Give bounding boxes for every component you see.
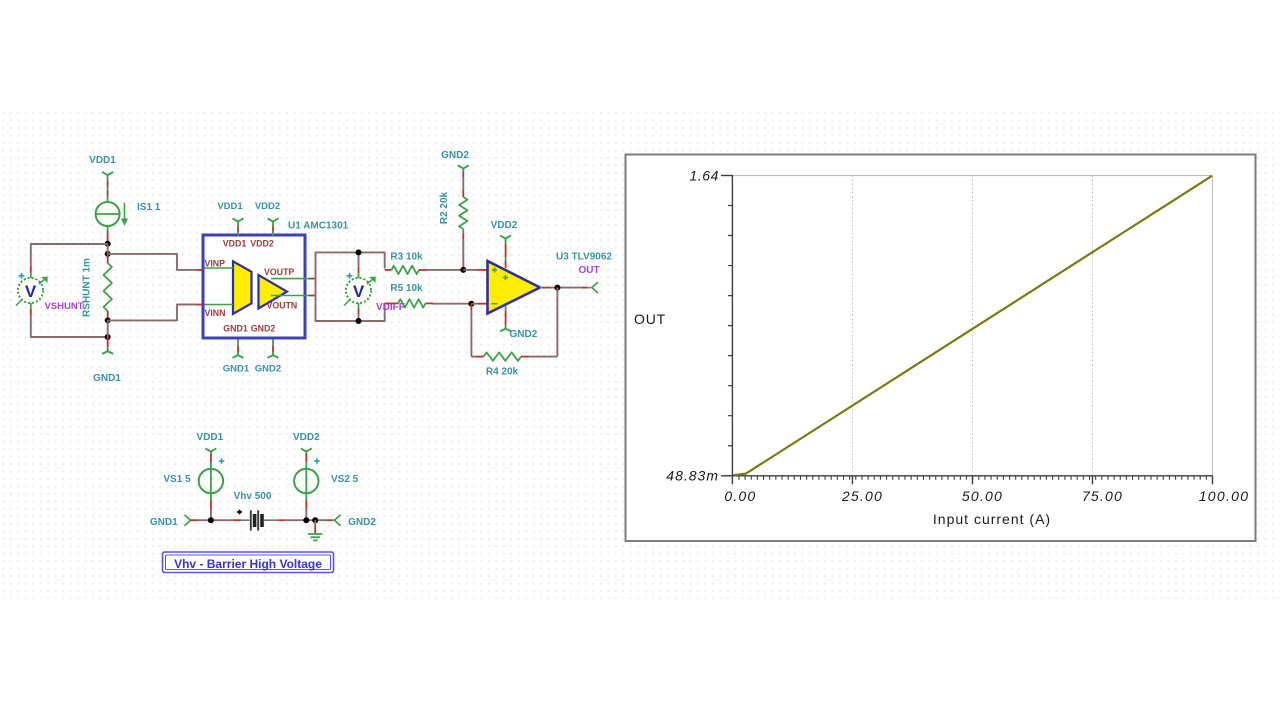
wire: op-amp output — [540, 287, 589, 289]
chart dotted gridline 75.00 — [1091, 176, 1093, 476]
svg-text:VDD2: VDD2 — [491, 220, 518, 231]
battery Vhv 500 — [234, 510, 284, 530]
svg-text:VDD2: VDD2 — [255, 201, 280, 212]
y axis — [731, 175, 733, 476]
U1 internal output lines — [271, 279, 305, 296]
power net VDD2 (U1 pin) — [255, 201, 280, 236]
wire: R4 to output — [521, 288, 557, 357]
terminal GND1 — [150, 515, 199, 528]
wire: shunt column between junctions — [107, 320, 109, 337]
svg-text:R3 10k: R3 10k — [390, 252, 423, 263]
svg-text:50.00: 50.00 — [962, 488, 1003, 504]
node: meter bottom junction — [356, 318, 362, 324]
power net VDD1 (U1 pin 1) — [217, 201, 243, 236]
wire: junction to op-amp - input — [471, 303, 477, 305]
node: VS1 bottom junction — [208, 517, 214, 523]
node: bottom loop junction — [105, 334, 111, 340]
svg-text:0.00: 0.00 — [724, 488, 756, 504]
svg-text:GND2: GND2 — [510, 329, 538, 340]
svg-text:Vhv - Barrier High Voltage: Vhv - Barrier High Voltage — [174, 557, 322, 571]
node: meter top junction — [356, 249, 362, 255]
svg-text:GND2: GND2 — [255, 364, 281, 375]
power net VDD2 (op-amp supply) — [491, 220, 518, 268]
y label dash 48.83m — [721, 475, 732, 477]
wire: left loop to VSHUNT meter — [31, 244, 108, 337]
svg-text:GND2: GND2 — [251, 323, 276, 333]
svg-text:VS2 5: VS2 5 — [331, 474, 359, 485]
battery + mark — [237, 511, 242, 513]
svg-text:VOUTP: VOUTP — [264, 267, 294, 277]
ground net GND2 (op-amp) — [500, 306, 538, 340]
node: earth junction — [312, 517, 318, 523]
resistor R5 10k — [385, 299, 433, 307]
svg-text:Vhv 500: Vhv 500 — [234, 491, 272, 502]
x axis — [732, 475, 1212, 477]
wire: junction to junction on shunt column — [107, 244, 109, 254]
y axis minor ticks — [728, 205, 732, 476]
node: output junction — [554, 285, 560, 291]
voltmeter VDIFF — [344, 267, 376, 315]
svg-text:R5 10k: R5 10k — [390, 283, 423, 294]
node: inverting input junction — [468, 301, 474, 307]
node: VINP branch junction — [105, 251, 111, 257]
resistor R2 20k — [459, 197, 467, 240]
wire: VOUTN pin stub — [305, 295, 316, 297]
op-amp U3 TLV9062 — [488, 261, 541, 314]
x axis minor ticks — [738, 476, 1212, 480]
resistor R4 20k — [484, 352, 522, 360]
chart dotted gridline 25.00 — [851, 176, 853, 476]
voltage source VS2 5 — [294, 458, 320, 493]
svg-text:VDD1: VDD1 — [196, 432, 223, 443]
svg-text:V: V — [353, 282, 365, 301]
svg-text:48.83m: 48.83m — [666, 468, 719, 484]
wire: R2 to summing node — [462, 240, 464, 270]
svg-text:GND1: GND1 — [93, 373, 121, 384]
svg-text:25.00: 25.00 — [841, 488, 883, 504]
chart gridline at 100.00 — [1212, 176, 1214, 476]
wire: R3 to summing node — [426, 269, 463, 271]
U1 input stage (yellow trapezoid) — [233, 261, 252, 314]
wire: VINP branch to U1 — [108, 254, 203, 270]
node: VS2 bottom junction — [303, 517, 309, 523]
U1 pin labels — [205, 239, 298, 334]
wire: VDIFF meter loop rectangle — [316, 252, 385, 321]
svg-text:VDD2: VDD2 — [293, 432, 320, 443]
svg-text:VINN: VINN — [205, 308, 226, 318]
wire: bottom rail left — [198, 519, 237, 521]
svg-text:OUT: OUT — [578, 265, 599, 276]
svg-text:VINP: VINP — [205, 259, 226, 269]
x tick labels — [724, 488, 1249, 504]
current source IS1 1 — [96, 202, 161, 244]
earth ground symbol — [308, 520, 322, 540]
svg-text:VDD1: VDD1 — [89, 155, 116, 166]
U1 internal input lines — [205, 268, 234, 305]
chart gridline at 1.64 — [732, 175, 1212, 177]
dotted schematic grid background — [0, 112, 1280, 599]
ground net GND2 (R2 top) — [441, 150, 469, 197]
svg-text:R4 20k: R4 20k — [486, 367, 519, 378]
svg-text:GND1: GND1 — [223, 364, 250, 375]
resistor R3 10k — [385, 266, 426, 274]
svg-text:VS1 5: VS1 5 — [163, 474, 191, 485]
annotation text box: Vhv - Barrier High Voltage — [163, 552, 334, 573]
node: IS1 output junction — [105, 241, 111, 247]
IC U1 AMC1301 body — [203, 235, 305, 338]
svg-text:IS1 1: IS1 1 — [137, 202, 161, 213]
svg-text:VDD1: VDD1 — [217, 201, 243, 212]
wire: feedback path — [471, 304, 483, 357]
x axis major ticks — [731, 476, 733, 485]
svg-text:GND2: GND2 — [441, 150, 469, 161]
y label dash 1.64 — [721, 175, 732, 177]
svg-text:GND1: GND1 — [150, 517, 178, 528]
ground net GND1 (U1 pin) — [223, 340, 250, 375]
svg-text:U1 AMC1301: U1 AMC1301 — [288, 221, 349, 232]
chart frame — [626, 155, 1256, 542]
svg-text:GND2: GND2 — [348, 517, 376, 528]
svg-text:GND1: GND1 — [223, 323, 248, 333]
svg-text:VDD2: VDD2 — [250, 239, 274, 249]
svg-text:V: V — [25, 282, 37, 301]
voltmeter VSHUNT — [16, 273, 48, 306]
svg-text:RSHUNT 1m: RSHUNT 1m — [82, 258, 93, 317]
terminal GND2 — [327, 515, 376, 528]
terminal OUT — [589, 282, 598, 293]
svg-text:VSHUNT: VSHUNT — [44, 301, 83, 312]
resistor RSHUNT 1m — [104, 254, 112, 321]
svg-text:100.00: 100.00 — [1199, 488, 1250, 504]
node: VINN branch junction — [105, 317, 111, 323]
svg-text:VDD1: VDD1 — [223, 239, 247, 249]
ground net GND2 (U1 pin) — [255, 340, 281, 375]
power net VDD1 (VS1 top) — [196, 432, 223, 469]
U1 output stage (yellow triangle) — [259, 275, 288, 308]
power net VDD2 (VS2 top) — [293, 432, 320, 469]
svg-text:U3 TLV9062: U3 TLV9062 — [556, 252, 612, 263]
waveform trace OUT — [734, 176, 1213, 475]
svg-text:OUT: OUT — [634, 311, 666, 327]
wire: bottom rail right — [284, 519, 327, 521]
wire: summing node to op-amp + input — [463, 269, 487, 271]
wire: VOUTP pin stub — [305, 278, 316, 280]
voltage source VS1 5 — [199, 458, 225, 493]
svg-text:75.00: 75.00 — [1082, 488, 1123, 504]
wire: R5 to inverting input — [433, 303, 471, 305]
svg-text:Input current (A): Input current (A) — [933, 511, 1051, 527]
svg-text:1.64: 1.64 — [689, 168, 719, 184]
wire: VINN branch to U1 — [108, 305, 203, 321]
svg-text:R2 20k: R2 20k — [439, 191, 450, 224]
power net VDD1 (top) — [89, 155, 116, 203]
chart dotted gridline 50.00 — [971, 176, 973, 476]
ground net GND1 (shunt bottom) — [93, 337, 121, 384]
node: summing junction (R2/R3) — [460, 267, 466, 273]
